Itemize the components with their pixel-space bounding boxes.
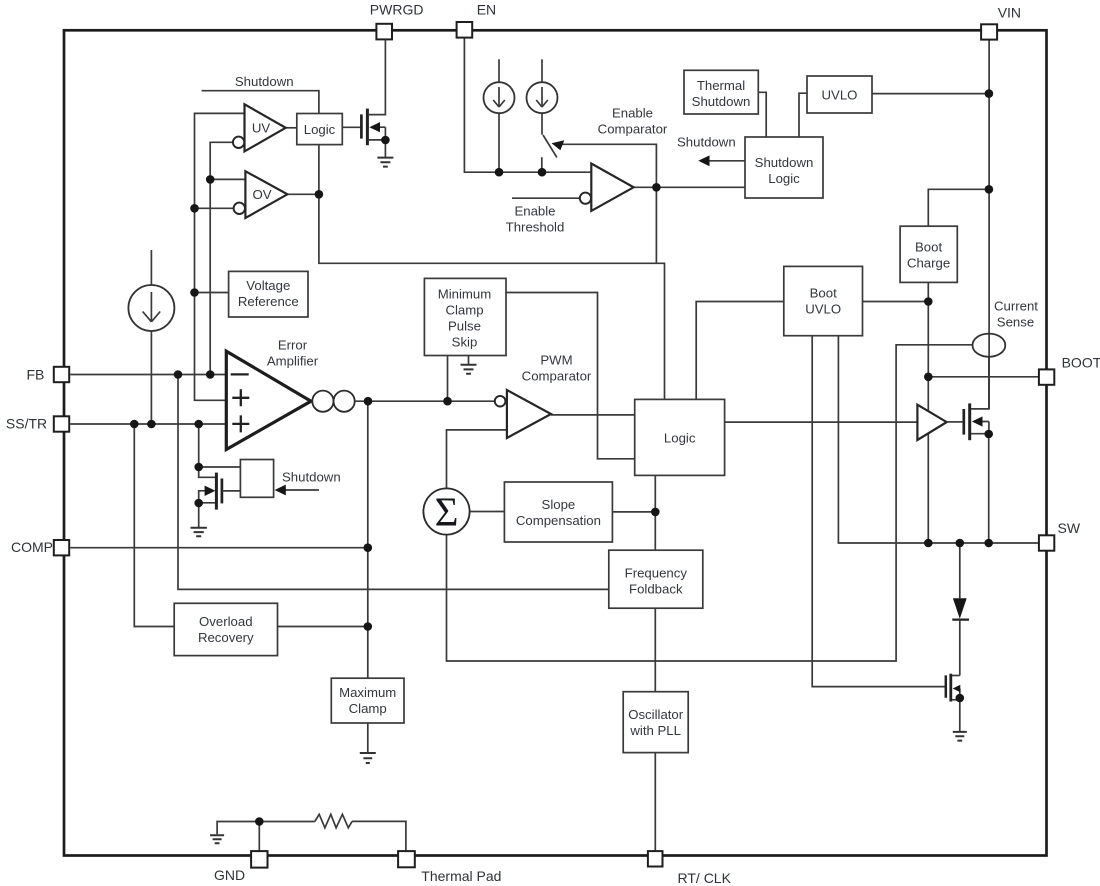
pin GND [214,851,268,883]
wire current source Ih to switch [541,113,543,135]
transistor Q1 PWRGD pulldown [361,40,385,157]
pin Thermal Pad [398,851,501,884]
arrowhead into shutdown discharge box [275,485,286,496]
svg-text:Current: Current [994,299,1038,314]
arrowhead shutdown output of Shutdown Logic [698,155,745,166]
voltage reference box [229,271,308,317]
svg-text:PWM: PWM [540,353,572,368]
frequency foldback box [609,550,703,608]
wire OV plus input stub [210,178,245,180]
wire VIN rail [988,40,990,409]
overload recovery box [174,603,277,655]
wire error amp output to PWM comparator [355,400,495,402]
svg-text:Threshold: Threshold [506,220,565,235]
wire Minimum Clamp to PWM logic [506,293,635,459]
label Current Sense [994,299,1038,330]
wire FB to Frequency Foldback [178,375,609,590]
wire error amp output down to COMP pin / clamps [367,401,369,678]
current sense element [973,334,1006,357]
boot charge box [900,226,957,282]
wire enable comparator output to Shutdown Logic [634,186,745,188]
wire SS/TR to shutdown transistor Q2 [198,424,200,467]
svg-text:Pulse: Pulse [448,319,481,334]
svg-text:Clamp: Clamp [445,303,483,318]
wire switch lower contact [541,157,543,172]
minimum clamp pulse skip box [424,278,506,355]
pin RT/CLK [648,851,732,886]
wire current source Ip1 feed stub [498,59,500,82]
pin FB [27,367,70,383]
svg-text:UVLO: UVLO [805,302,841,317]
svg-text:GND: GND [214,867,245,883]
svg-text:UV: UV [252,121,271,136]
svg-text:Frequency: Frequency [625,566,688,581]
wire OV inverting bubble stub [195,207,234,209]
arrowhead hysteresis control [552,140,565,150]
wire SS/TR to Overload Recovery [134,424,174,627]
svg-text:Oscillator: Oscillator [628,707,684,722]
wire Boot UVLO to Logic [696,302,784,400]
svg-text:OV: OV [252,187,271,202]
wire Slope Compensation output to clock net [612,511,655,513]
maximum clamp box [331,678,404,723]
wire Minimum Clamp ground stub [468,356,470,365]
wire SS/TR charge current source [150,250,152,285]
node Vref to voltage reference [190,288,199,297]
ground for Q4 [953,732,967,741]
svg-text:Logic: Logic [304,122,336,137]
node SS/TR to overload recovery [130,420,139,429]
wire Q2 drain node to shutdown box [199,466,241,468]
node slope compensation on clock net [651,508,660,517]
node FB to UV bubble net [206,370,215,379]
pin SW [1039,520,1081,551]
node SS/TR to Q2 [194,420,203,429]
wire Overload Recovery output [278,626,368,628]
node boot rail on SW line [924,539,933,548]
pin SS/TR [6,415,69,431]
node Q3 source body [984,430,993,439]
svg-text:Compensation: Compensation [516,513,601,528]
wire current source Ih feed stub [541,59,543,82]
label Error Amplifier [267,338,319,369]
wire Vref net to Voltage Reference box [195,292,229,294]
node BOOT line on boot rail [924,373,933,382]
svg-text:Logic: Logic [768,171,800,186]
svg-text:Minimum: Minimum [438,287,491,302]
svg-text:Thermal: Thermal [697,78,745,93]
wire Thermal Shutdown to Shutdown Logic [758,92,766,137]
wire node to chip ground symbol [217,822,259,835]
ground for minimum clamp [461,365,477,374]
svg-text:Amplifier: Amplifier [267,354,319,369]
wire FB pin to error amplifier [70,374,226,376]
label PWM Comparator [522,353,592,384]
svg-text:Shutdown: Shutdown [282,470,341,485]
pin EN [457,2,497,38]
gate driver U4 [917,405,946,440]
wire SS/TR pin to error amplifier [70,423,226,425]
shutdown logic box [745,137,823,198]
svg-text:Recovery: Recovery [198,630,254,645]
svg-text:Enable: Enable [612,106,653,121]
pin PWRGD [370,2,424,40]
wire PWM comparator output to Logic [551,414,635,416]
svg-text:VIN: VIN [998,5,1021,21]
svg-text:Enable: Enable [514,204,555,219]
wire Boot UVLO to boot rail [863,301,929,303]
wire current source to SS/TR line [150,331,152,424]
node Q2 source body [194,499,203,508]
node UVLO on VIN rail [985,89,994,98]
ground for Q2 [191,528,207,537]
transistor Q4 low side FET [946,674,961,732]
node Q1 source body [381,136,390,145]
wire Boot UVLO to SW line [838,336,1039,543]
wire Boot Charge down through BOOT node to SW line [927,282,929,543]
svg-text:BOOT: BOOT [1062,354,1100,370]
diode D1 freewheel [952,543,969,676]
svg-text:Boot: Boot [915,240,942,255]
oscillator with PLL box [623,692,688,753]
wire summing node to PWM comparator input [447,430,507,489]
svg-text:Charge: Charge [907,256,950,271]
wire logic output to Q1 gate [342,126,361,128]
node FB to frequency foldback [174,370,183,379]
comparator PWM [495,390,551,438]
wire Logic output to gate driver [725,421,918,423]
node boot UVLO on boot rail [924,297,933,306]
svg-text:Shutdown: Shutdown [677,135,736,150]
node minimum clamp on EA output [443,397,452,406]
switch enable hysteresis [543,135,557,157]
svg-text:UVLO: UVLO [822,88,858,103]
wire GND pin to resistor node [258,822,260,852]
svg-text:Logic: Logic [664,431,696,446]
node Q2 drain [194,463,203,472]
node diode on SW line [956,539,965,548]
svg-text:Shutdown: Shutdown [755,155,814,170]
ground for maximum clamp [360,723,376,763]
ground for Q1 [377,158,393,167]
node error amp output [364,397,373,406]
svg-text:with PLL: with PLL [629,723,681,738]
summing node sigma [423,488,469,534]
node SS/TR charge current [147,420,156,429]
svg-text:PWRGD: PWRGD [370,2,424,18]
current source SS charge [128,285,174,331]
wire Minimum Clamp to error amp output node [447,356,449,402]
current source Ip1 [484,82,515,113]
slope compensation box [504,482,612,542]
current source Ih [527,82,558,113]
wire resistor to Thermal Pad pin [352,821,406,851]
wire UV plus input / Vref net to error amp plus input [195,113,245,400]
node Q4 source body [956,694,965,703]
wire UVLO to VIN rail [872,93,989,95]
svg-text:COMP: COMP [11,539,53,555]
wire UV output to logic [286,127,297,129]
label Enable Threshold [506,204,565,235]
wire OV output to shutdown net [287,193,319,195]
wire Boot Charge to VIN rail [928,189,989,226]
comparator OV [234,171,288,218]
boot UVLO box [784,266,863,335]
label Enable Comparator [598,106,668,137]
wire Boot UVLO to low side gate [812,336,945,687]
error amplifier U1 [226,351,311,449]
logic box (main PWM logic) [635,399,725,475]
node overload recovery output [364,622,373,631]
resistor R thermal pad [315,814,352,828]
svg-text:Slope: Slope [542,497,576,512]
thermal shutdown box [684,70,758,114]
node OV output on shutdown net [315,190,324,199]
svg-text:Comparator: Comparator [522,369,592,384]
svg-text:EN: EN [477,2,496,18]
comparator UV [233,104,286,151]
node COMP on EA output net [364,543,373,552]
svg-text:Reference: Reference [238,294,299,309]
svg-text:Shutdown: Shutdown [235,74,294,89]
wire UV inverting bubble net down to FB line [210,142,233,374]
svg-text:RT/ CLK: RT/ CLK [678,870,732,886]
svg-text:Clamp: Clamp [349,701,387,716]
node enable comparator output [652,183,661,192]
svg-text:Maximum: Maximum [339,685,396,700]
logic box (PWRGD) [297,114,343,145]
gm output circles of error amplifier [312,391,354,412]
pin VIN [981,5,1021,40]
ground chip GND [210,835,224,843]
node OV plus input [206,175,215,184]
svg-text:Voltage: Voltage [246,278,290,293]
svg-text:FB: FB [27,367,45,383]
wire current sense to summing node [447,345,973,661]
svg-text:SS/TR: SS/TR [6,415,47,431]
wire Enable Threshold input [512,197,580,199]
svg-text:SW: SW [1058,520,1081,536]
comparator Enable [580,164,634,211]
node EN current source Ip1 [495,168,504,177]
svg-text:Σ: Σ [435,489,459,535]
svg-text:Sense: Sense [997,315,1034,330]
wire EN pin to enable comparator [464,38,591,173]
node Q3 source on SW line [984,539,993,548]
node boot charge on VIN rail [985,185,994,194]
svg-text:Overload: Overload [199,614,253,629]
wire clock net Logic to Frequency Foldback Oscillator and RT/CLK pin [654,475,656,851]
UVLO box [807,76,872,113]
wire current source Ip1 to EN net [498,113,500,172]
wire shutdown command into box with arrow [284,489,319,491]
node GND pin junction [255,817,264,826]
node EN switch [538,168,547,177]
wire summing node to Slope Compensation [470,511,505,513]
svg-text:Boot: Boot [810,286,837,301]
transistor Q2 SS discharge [199,467,241,527]
svg-text:Skip: Skip [452,335,478,350]
shutdown discharge box [240,460,273,498]
wire BOOT pin line [928,376,1039,378]
transistor Q3 high side power FET [947,357,989,543]
wire Shutdown overline net (UV/OV logic to enable comparator output) [202,91,665,400]
pin COMP [11,539,69,555]
pin BOOT [1039,354,1100,385]
svg-text:Foldback: Foldback [629,582,683,597]
node OV bubble on Vref net [190,204,199,213]
svg-text:Error: Error [278,338,308,353]
wire COMP pin line [70,547,368,549]
svg-text:Thermal Pad: Thermal Pad [421,868,501,884]
svg-text:Comparator: Comparator [598,122,668,137]
svg-text:Shutdown: Shutdown [692,94,751,109]
wire UVLO to Shutdown Logic [799,93,807,137]
wire node to resistor [259,821,315,823]
wire hysteresis feedback from comparator output to switch [562,144,656,263]
